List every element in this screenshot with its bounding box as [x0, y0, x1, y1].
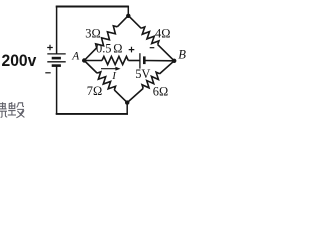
node A junction dot — [82, 58, 86, 62]
svg-text:5V: 5V — [135, 67, 150, 81]
label battery V2 plus sign — [129, 47, 135, 53]
node B junction dot — [172, 59, 176, 63]
battery V1 short thick plate 2 (negative) — [52, 64, 61, 67]
svg-text:Ω: Ω — [113, 42, 122, 56]
svg-text:7Ω: 7Ω — [87, 84, 102, 98]
resistor 7ohm zigzag — [97, 72, 115, 90]
svg-text:B: B — [178, 48, 186, 62]
label battery V1 minus sign — [45, 72, 50, 74]
wire bottom rail — [56, 113, 128, 115]
node bottom junction dot — [125, 100, 129, 104]
wire left vertical top (battery positive lead) — [56, 7, 58, 54]
svg-text:200v: 200v — [2, 51, 37, 70]
label battery V2 minus sign — [150, 47, 155, 49]
battery V1 short thick plate 1 — [52, 57, 61, 60]
text CJK character hui — [8, 102, 25, 118]
wire top rail — [56, 6, 129, 8]
node top junction dot — [126, 14, 130, 18]
wire left vertical bottom (battery negative lead) — [56, 66, 58, 114]
svg-text:6Ω: 6Ω — [153, 84, 168, 98]
svg-text:0.5: 0.5 — [96, 42, 112, 56]
wire 6ohm arm lower lead — [127, 88, 143, 102]
svg-text:4Ω: 4Ω — [155, 26, 170, 40]
text fragment CJK partial char (cut at left edge) — [0, 102, 7, 117]
wire 4ohm arm lower lead — [158, 45, 175, 61]
battery V1 200v long plate 1 — [47, 53, 65, 55]
resistor 3ohm zigzag — [96, 26, 118, 48]
svg-text:3Ω: 3Ω — [85, 26, 100, 40]
current arrow I — [101, 68, 118, 70]
wire middle branch left lead — [84, 60, 102, 62]
wire battery V2 to node B — [144, 60, 174, 62]
wire 3ohm arm upper lead — [117, 16, 128, 27]
battery V1 long plate 2 — [47, 61, 65, 63]
wire 4ohm arm upper lead — [128, 16, 141, 29]
battery V2 5V short thick plate (negative) — [143, 56, 146, 64]
wire 7ohm arm lower lead — [114, 90, 127, 103]
label battery V1 plus sign — [47, 45, 53, 51]
resistor 4ohm zigzag — [141, 27, 159, 45]
wire top drop to bridge top node — [127, 6, 129, 16]
wire 7ohm arm upper lead — [84, 61, 97, 74]
wire 3ohm arm lower lead — [84, 48, 96, 61]
resistor 0.5ohm zigzag — [102, 56, 128, 64]
resistor 6ohm zigzag — [142, 72, 160, 88]
wire bottom node drop — [126, 103, 128, 115]
wire 6ohm arm upper lead — [160, 61, 175, 74]
battery V2 5V long plate (positive) — [139, 53, 141, 68]
svg-text:A: A — [71, 51, 80, 63]
wire 0.5ohm to battery V2 — [128, 60, 140, 62]
